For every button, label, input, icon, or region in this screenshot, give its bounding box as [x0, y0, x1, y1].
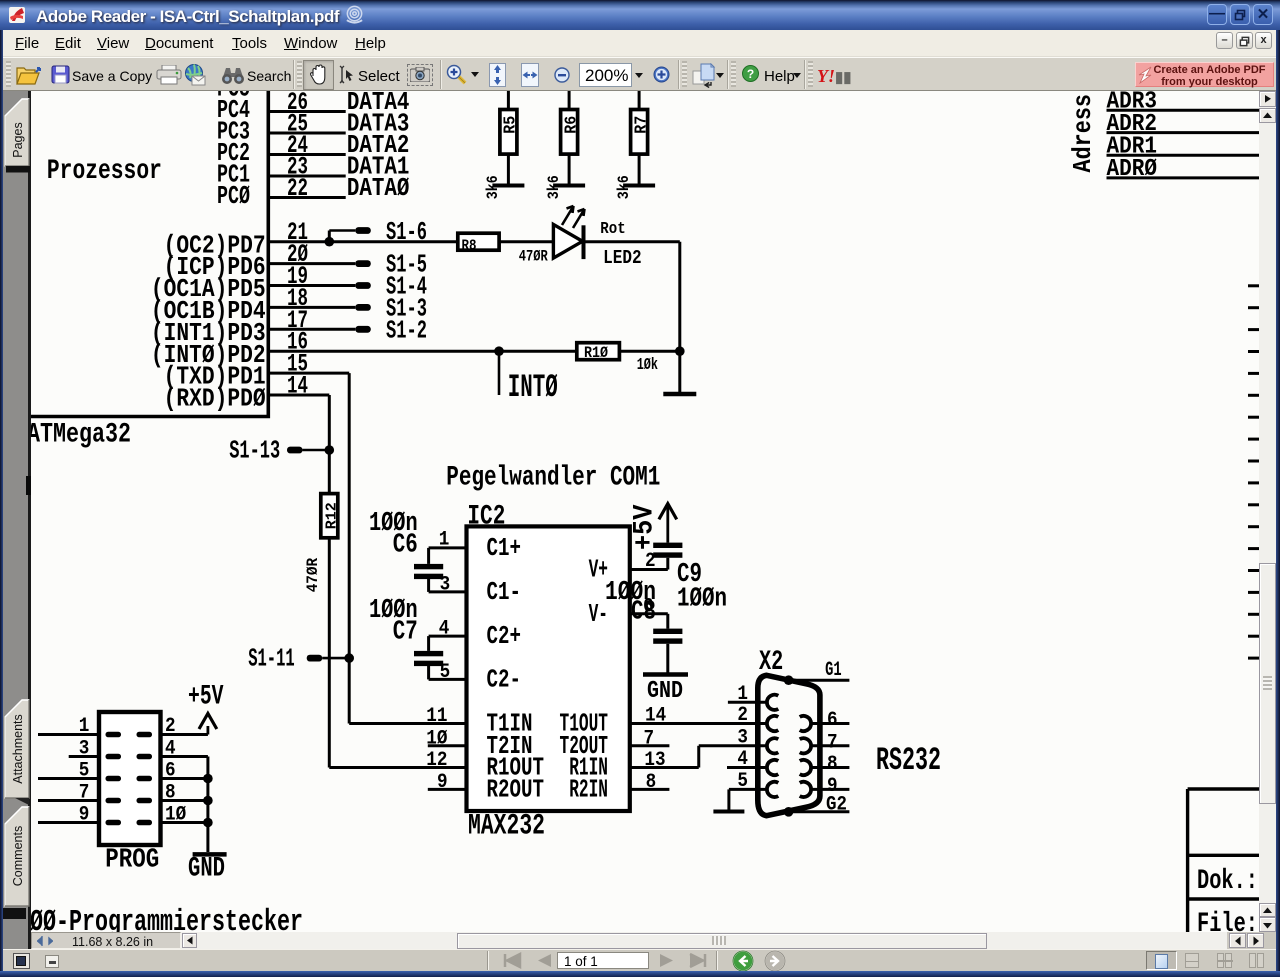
PROG pad pin 2 [137, 732, 153, 738]
svg-text:C6: C6 [393, 531, 418, 561]
PROG pad pin 6 [137, 776, 153, 782]
svg-text:Prozessor: Prozessor [47, 156, 162, 187]
wire R10 to junction [619, 350, 679, 353]
svg-text:DATAØ: DATAØ [347, 173, 410, 203]
wire R12 to IC2 pin 12 [328, 538, 331, 768]
svg-text:G2: G2 [826, 793, 847, 816]
svg-text:9: 9 [79, 804, 90, 827]
jumper S1-13 [229, 436, 329, 466]
svg-text:R6: R6 [562, 116, 581, 134]
svg-text:Attachments: Attachments [11, 714, 25, 783]
svg-text:47ØR: 47ØR [304, 558, 322, 593]
svg-text:R7: R7 [632, 116, 651, 134]
wire X2 pin 4 stub [727, 766, 767, 769]
PROG pad pin 10 [137, 820, 153, 826]
wire T1OUT pin 14 to X2 pin 2 [630, 722, 767, 725]
svg-text:PCØ: PCØ [217, 181, 250, 211]
svg-text:3: 3 [737, 726, 748, 749]
svg-text:1: 1 [79, 715, 90, 738]
svg-text:5: 5 [79, 760, 90, 783]
svg-text:PROG: PROG [105, 845, 159, 875]
svg-text:(RXD)PDØ: (RXD)PDØ [164, 384, 266, 414]
ground at R10 [663, 351, 696, 394]
svg-text:2ØØ-Programmierstecker: 2ØØ-Programmierstecker [31, 905, 303, 932]
wire X2 pin 1 stub [728, 701, 767, 704]
svg-text:1Øk: 1Øk [637, 356, 658, 375]
resistor R8 value 470R [458, 233, 548, 265]
svg-text:7: 7 [79, 782, 90, 805]
wire net ADR3 [1107, 109, 1260, 112]
wire pin 18 to jumper S1-3 [268, 306, 355, 309]
jumper stub S1-6 [328, 231, 331, 242]
X2 contact pin 4 [767, 760, 778, 775]
svg-text:8: 8 [827, 753, 838, 776]
wire PROG pin 4,6,8,10 gnd rail [161, 755, 208, 758]
svg-text:2: 2 [737, 704, 748, 727]
svg-text:X2: X2 [759, 647, 783, 678]
svg-text:MAX232: MAX232 [468, 810, 545, 844]
PROG pad pin 3 [106, 754, 122, 760]
wire PD7 pin 21 to R8 [268, 240, 458, 243]
svg-text:S1-2: S1-2 [386, 315, 427, 345]
op-amp IC2 MAX232 body [467, 502, 630, 844]
wire PROG pin 1 [38, 733, 99, 736]
resistor R7 vertical with value 3k6 [615, 85, 655, 199]
wire pin 24 net DATA2 [268, 153, 345, 156]
X2 contact pin 9 [800, 782, 811, 797]
PROG pad pin 4 [137, 754, 153, 760]
X2 contact pin 7 [800, 738, 811, 753]
wire X2 pin 9 stub [811, 788, 850, 791]
svg-text:C2+: C2+ [487, 621, 522, 651]
wire pin 20 to jumper S1-5 [268, 262, 355, 265]
wire pin 25 net DATA3 [268, 132, 345, 135]
wire S1-11 net to IC2 pin 11 [349, 722, 466, 725]
wire X2 pin 7 stub [811, 744, 850, 747]
X2 contact pin 6 [800, 716, 811, 731]
wire net ADR0 [1107, 176, 1260, 179]
wire PROG pin 5 [38, 777, 99, 780]
wire net ADR1 [1107, 154, 1260, 157]
wire X2 pin 5 to ground [713, 789, 767, 811]
wire T2OUT pin 7 stub [630, 744, 670, 747]
X2 contact pin 3 [767, 738, 778, 753]
capacitor C8 100n [605, 578, 682, 673]
wire R2IN pin 8 stub [630, 788, 670, 791]
resistor R5 vertical with value 3k6 [484, 85, 524, 199]
svg-text:C8: C8 [631, 598, 656, 628]
wire pin 23 net DATA1 [268, 175, 345, 178]
wire net ADR2 [1107, 131, 1260, 134]
X2 contact pin 2 [767, 716, 778, 731]
junction on pin 21 wire [325, 237, 335, 247]
wire PROG pin 7 [38, 799, 99, 802]
svg-text:4: 4 [737, 748, 748, 771]
wire PD2 pin 16 INT0 net [268, 350, 577, 353]
svg-text:G1: G1 [825, 659, 842, 682]
svg-text:47ØR: 47ØR [519, 248, 548, 266]
X2 contact pin 1 [767, 695, 778, 710]
svg-text:S1-11: S1-11 [248, 644, 295, 674]
junction INT0 [494, 346, 504, 356]
X2 contact pin 8 [800, 760, 811, 775]
svg-text:Dok.:: Dok.: [1197, 866, 1258, 897]
wire pin 26 net DATA4 [268, 110, 345, 113]
svg-text:C1-: C1- [487, 577, 522, 607]
PROG pad pin 9 [106, 820, 122, 826]
jumper S1-11 [248, 644, 349, 674]
svg-text:11: 11 [426, 705, 447, 728]
svg-text:GND: GND [188, 854, 225, 885]
svg-text:R2OUT: R2OUT [487, 774, 545, 804]
IC U1 ATMega32 Prozessor block [24, 85, 268, 451]
X2 shield node G2 [784, 793, 850, 816]
svg-text:INTØ: INTØ [508, 369, 558, 406]
junction S1-11 [344, 653, 354, 663]
junction at R10 right [675, 346, 685, 356]
wire R1IN pin 13 step to X2 pin 3 [630, 766, 699, 769]
wire PROG pin 2 to +5V [161, 733, 208, 736]
svg-text:Pages: Pages [11, 122, 25, 157]
wire V+ pin 2 to C9 [630, 568, 668, 571]
svg-text:3: 3 [79, 738, 90, 761]
svg-text:5: 5 [737, 770, 748, 793]
wire R8 to LED2 [499, 240, 553, 243]
title block frame [1188, 789, 1259, 940]
wire PROG pin 3 [69, 755, 99, 758]
capacitor C9 100n [653, 543, 727, 615]
svg-text:R2IN: R2IN [569, 774, 608, 804]
svg-text:7: 7 [827, 731, 838, 754]
svg-text:GND: GND [647, 678, 683, 705]
supply +5V symbol at C9 [630, 504, 677, 550]
svg-text:22: 22 [287, 174, 308, 203]
PROG pad pin 1 [106, 732, 122, 738]
svg-text:ATMega32: ATMega32 [31, 420, 131, 451]
svg-text:Comments: Comments [11, 826, 25, 886]
svg-text:1ØØn: 1ØØn [677, 584, 727, 614]
svg-text:Rot: Rot [600, 220, 625, 239]
capacitor C7 100n [369, 596, 467, 680]
svg-text:C1+: C1+ [487, 533, 522, 563]
X2 shield node G1 [784, 659, 850, 685]
svg-text:S1-6: S1-6 [386, 217, 427, 247]
svg-text:IC2: IC2 [467, 502, 505, 533]
wire PROG pin 9 [38, 821, 99, 824]
resistor R12 value 470R [304, 494, 340, 593]
svg-text:RS232: RS232 [876, 742, 941, 779]
stub to INT0 label [498, 351, 501, 395]
wire PD1 pin 15 elbow [268, 372, 349, 375]
svg-text:3k6: 3k6 [545, 175, 563, 199]
svg-text:6: 6 [827, 709, 838, 732]
wire X2 pin 6 stub [811, 722, 850, 725]
PROG pad pin 7 [106, 798, 122, 804]
svg-text:R12: R12 [324, 502, 341, 529]
svg-text:1: 1 [737, 683, 748, 706]
junction S1-13 [325, 445, 335, 455]
connector X2 DB9 RS232 body [758, 647, 941, 816]
svg-text:R1Ø: R1Ø [584, 344, 608, 362]
supply +5V symbol at PROG [188, 682, 224, 729]
svg-text:R8: R8 [462, 238, 477, 255]
wire X2 pin 8 stub [811, 766, 850, 769]
svg-text:LED2: LED2 [603, 247, 642, 269]
wire pin 22 net DATA0 [268, 196, 345, 199]
svg-text:3k6: 3k6 [615, 175, 633, 199]
capacitor C6 100n [369, 509, 467, 592]
svg-text:R5: R5 [502, 116, 521, 134]
resistor R10 value 10k [577, 343, 658, 375]
wire pin 19 to jumper S1-4 [268, 284, 355, 287]
PROG pad pin 8 [137, 798, 153, 804]
wire LED2 cathode right and down [584, 240, 680, 243]
svg-text:?: ? [747, 67, 754, 81]
svg-text:File:: File: [1197, 909, 1258, 932]
resistor R6 vertical with value 3k6 [545, 85, 585, 199]
wire pin 17 to jumper S1-2 [268, 328, 355, 331]
svg-text:Pegelwandler COM1: Pegelwandler COM1 [446, 463, 660, 494]
PROG pad pin 5 [106, 776, 122, 782]
wire pin 9 stub [428, 788, 467, 791]
svg-text:C7: C7 [393, 618, 418, 648]
svg-text:12: 12 [426, 749, 447, 772]
wire V- pin 6 to C8 [630, 612, 668, 615]
connector pin stubs right edge [1248, 286, 1261, 658]
wire PD0 pin 14 elbow down to R12 [268, 394, 329, 397]
ground GND at C8 [643, 675, 688, 706]
wire pin 10 stub [428, 744, 467, 747]
svg-text:3k6: 3k6 [484, 175, 502, 199]
connector PROG 2x5 header body [99, 712, 161, 875]
svg-text:S1-13: S1-13 [229, 436, 280, 466]
LED D2 LED2 red [553, 206, 641, 269]
svg-text:Adress: Adress [1068, 94, 1098, 173]
ground GND at PROG [188, 854, 227, 885]
X2 contact pin 5 [767, 782, 778, 797]
svg-text:C2-: C2- [487, 664, 522, 694]
svg-text:+5V: +5V [188, 682, 224, 713]
